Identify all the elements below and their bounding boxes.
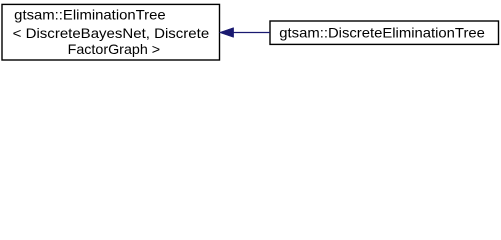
node box gtsam::DiscreteEliminationTree (derived class) <box>270 21 499 44</box>
node box gtsam::EliminationTree (base class) <box>2 4 220 60</box>
svg-text:< DiscreteBayesNet, Discrete: < DiscreteBayesNet, Discrete <box>13 25 210 41</box>
inheritance arrowhead pointing at base class <box>219 28 233 38</box>
svg-text:gtsam::DiscreteEliminationTree: gtsam::DiscreteEliminationTree <box>279 25 485 41</box>
svg-text:gtsam::EliminationTree: gtsam::EliminationTree <box>14 6 166 22</box>
inheritance edge line (wire from derived to base) <box>233 32 270 34</box>
svg-text:FactorGraph >: FactorGraph > <box>68 41 161 57</box>
